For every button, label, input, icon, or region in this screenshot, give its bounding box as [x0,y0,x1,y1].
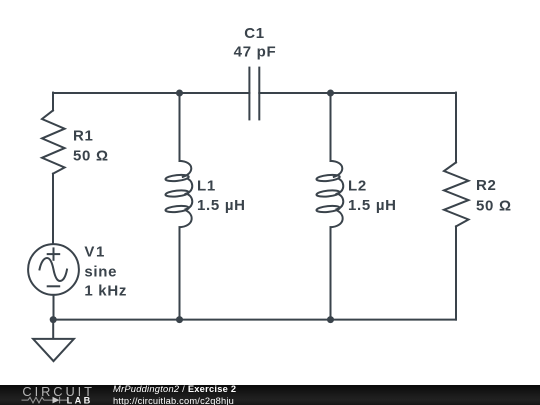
wire ground stem [52,320,54,339]
svg-text:R1: R1 [73,127,94,144]
svg-text:50 Ω: 50 Ω [73,147,109,164]
node bottom L1 [176,316,183,323]
wire R2 bottom [455,226,457,319]
footer bar [0,385,540,405]
svg-text:1.5 µH: 1.5 µH [197,197,246,214]
svg-text:L1: L1 [197,178,216,195]
node bottom ground [50,316,57,323]
voltage source V1 [28,244,79,295]
wire R1 to V1 [52,174,54,245]
footer url line 2 [113,396,234,405]
svg-text:C1: C1 [244,25,265,42]
svg-text:V1: V1 [84,243,106,260]
svg-text:R2: R2 [476,177,497,194]
ground [33,339,74,361]
wire R2 top [455,93,457,163]
CircuitLab logo [0,381,100,405]
svg-text:LAB: LAB [67,396,93,405]
wire bottom [53,319,456,321]
wire L2 top [330,93,332,161]
resistor R2 [444,162,469,226]
svg-text:sine: sine [84,263,117,280]
wire L1 bottom [179,227,181,319]
wire V1 to bottom [53,295,55,320]
node top L2 [327,90,334,97]
node bottom L2 [327,316,334,323]
wire L1 top [179,93,181,161]
svg-text:1.5 µH: 1.5 µH [348,197,397,214]
resistor R1 [42,110,65,173]
inductor L1 [165,161,192,227]
node top L1 [176,90,183,97]
wire L2 bottom [330,227,332,319]
inductor L2 [316,161,343,227]
svg-text:L2: L2 [348,178,367,195]
capacitor C1 [249,68,259,120]
logo schematic line [22,397,68,404]
footer attribution line 1 [113,384,236,394]
logo diode [53,397,60,404]
svg-text:1 kHz: 1 kHz [84,283,127,300]
svg-text:50 Ω: 50 Ω [476,198,512,215]
wire top right segment [259,92,456,94]
svg-text:47 pF: 47 pF [234,43,277,60]
wire left top [52,93,54,111]
wire top left segment [53,92,249,94]
